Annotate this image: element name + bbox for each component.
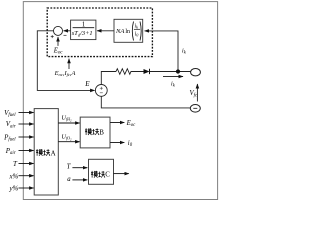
svg-text:sTd/3+1: sTd/3+1 <box>72 30 93 37</box>
svg-text:E: E <box>84 80 90 88</box>
svg-text:a: a <box>67 176 71 183</box>
svg-text:Eoc,Ifc,A: Eoc,Ifc,A <box>54 70 76 77</box>
svg-text:y%: y% <box>8 184 18 192</box>
svg-text:ln: ln <box>125 29 130 35</box>
svg-text:B: B <box>99 129 104 137</box>
svg-text:C: C <box>105 171 110 179</box>
svg-text:NA: NA <box>115 28 125 35</box>
svg-text:x%: x% <box>8 172 18 180</box>
svg-text:ik: ik <box>135 23 139 29</box>
svg-text:A: A <box>51 149 56 157</box>
